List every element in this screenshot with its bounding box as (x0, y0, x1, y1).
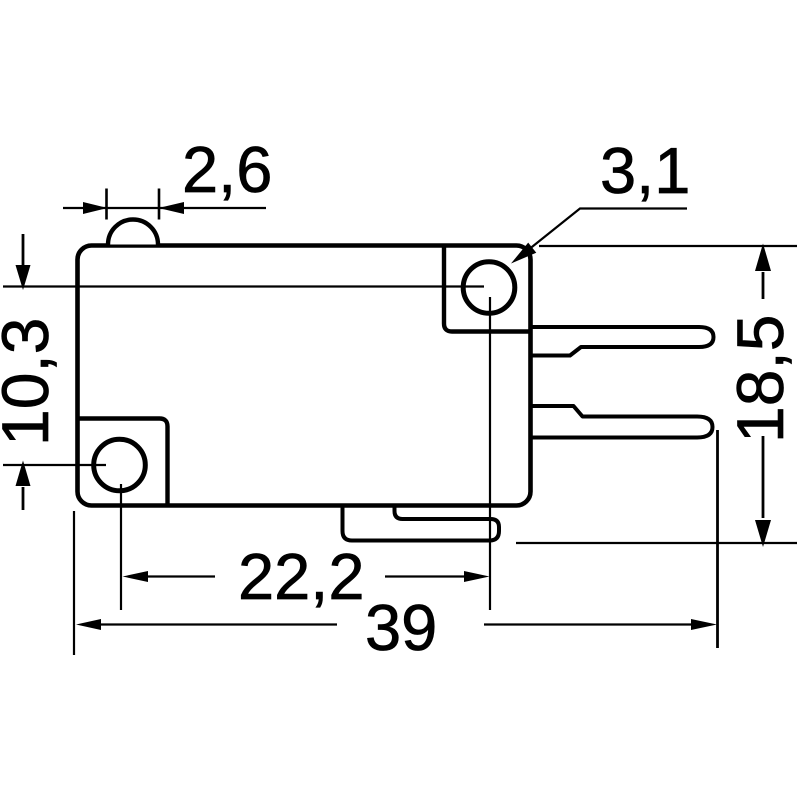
dimension 2,6 tick right (158, 189, 161, 220)
svg-text:10,3: 10,3 (0, 318, 62, 446)
terminal pin 2 (lower right) (530, 406, 713, 438)
svg-text:18,5: 18,5 (723, 315, 797, 443)
dimension 18,5 upper arrow (762, 272, 765, 299)
dimension 10,3 lower arrow (22, 487, 25, 510)
bottom terminal tab (343, 505, 500, 541)
dimension 10,3 upper arrow (22, 234, 25, 266)
extension line tab bottom (right) (516, 542, 797, 544)
dimension 2,6 arrow left (83, 202, 108, 214)
dimension 22,2 arrow left (123, 571, 149, 582)
svg-text:22,2: 22,2 (238, 540, 365, 613)
plunger button (108, 220, 158, 245)
dimension 22,2 line right (385, 575, 466, 577)
dimension 39 arrow right (691, 619, 717, 630)
extension line body left vertical (73, 511, 75, 655)
dimension 18,5 lower arrow (762, 436, 765, 518)
dimension 2,6 tick left (105, 189, 108, 220)
leader line 3,1 (520, 209, 687, 257)
bottom-left mounting boss (79, 419, 168, 504)
dimension 2,6 line (63, 207, 266, 209)
leader arrow 3,1 (511, 243, 536, 264)
extension line pin tip vertical (716, 430, 719, 648)
dimension 22,2 arrow right (464, 571, 490, 582)
bottom mounting hole (94, 439, 146, 491)
dimension 39 line right (484, 623, 692, 625)
top-right mounting boss (444, 247, 529, 332)
dimension 39 line left (100, 623, 337, 625)
extension line top hole center (left) (3, 285, 484, 287)
terminal pin 1 (upper right) (530, 327, 714, 356)
svg-text:2,6: 2,6 (182, 133, 272, 206)
extension line body top (right) (539, 245, 797, 247)
svg-text:39: 39 (365, 591, 437, 664)
switch body outline (78, 246, 531, 506)
extension line bottom hole center (left) (3, 464, 106, 466)
svg-text:3,1: 3,1 (600, 134, 690, 207)
dimension 39 arrow left (76, 619, 101, 630)
dimension 2,6 arrow right (159, 202, 185, 214)
dimension 22,2 line left (148, 575, 215, 577)
top mounting hole (463, 262, 515, 314)
centerline bottom hole vertical (120, 484, 122, 610)
centerline top hole vertical (489, 297, 491, 610)
